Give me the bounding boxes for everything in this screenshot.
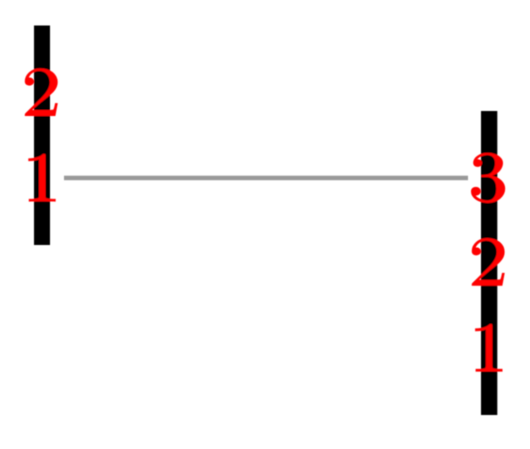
label 3 on right peg: [471, 153, 505, 203]
right peg (black bar): [481, 111, 497, 415]
label 2 on left peg: [25, 68, 57, 115]
label 2 on right peg: [472, 238, 504, 285]
left peg (black bar): [34, 26, 50, 246]
connector wire (gray line from node 1 on left peg to node 3 on right peg): [64, 176, 468, 181]
label 1 on left peg: [29, 154, 56, 201]
label 1 on right peg: [475, 324, 502, 371]
